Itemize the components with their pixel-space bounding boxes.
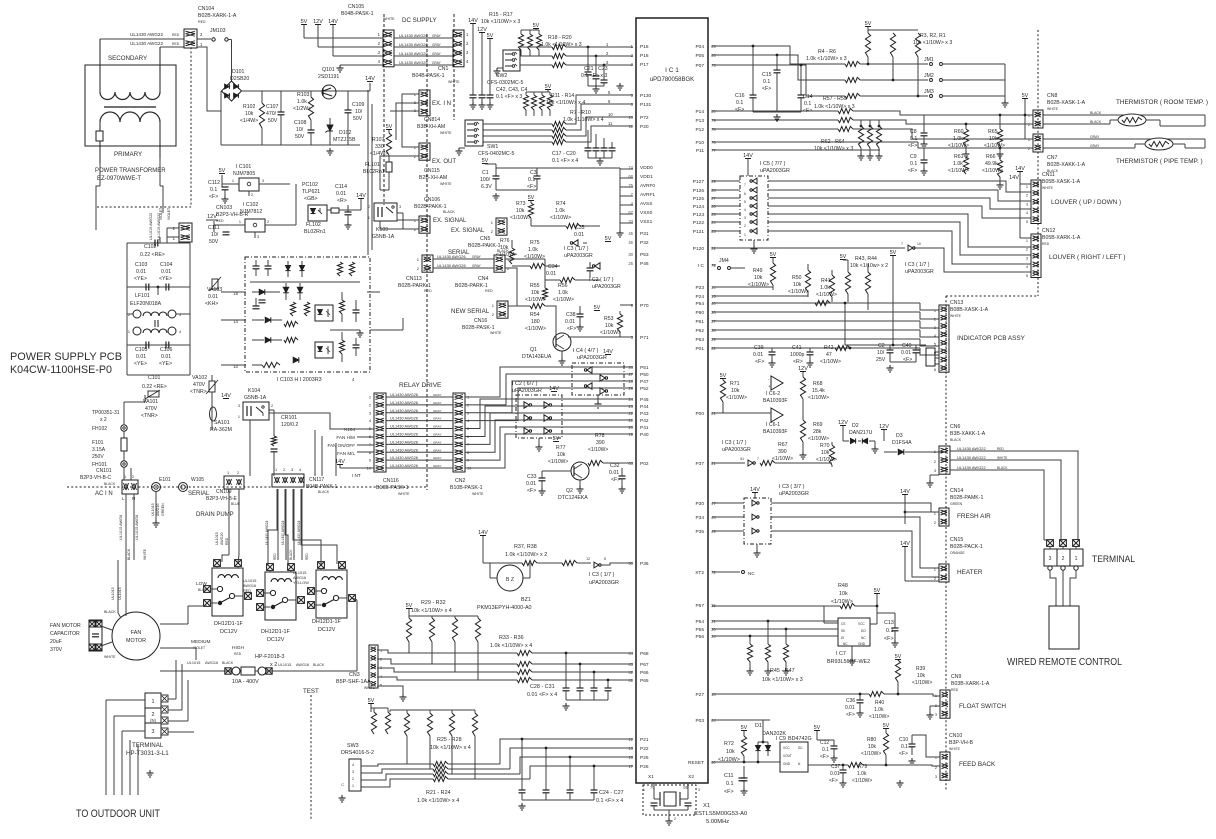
svg-text:RELAY DRIVE: RELAY DRIVE: [399, 382, 442, 389]
svg-text:<F>: <F>: [908, 168, 917, 174]
svg-text:250V: 250V: [92, 454, 104, 460]
svg-text:NJM7805: NJM7805: [233, 171, 255, 177]
svg-text:G5NB-1A: G5NB-1A: [372, 234, 395, 240]
svg-text:<1/10W>: <1/10W>: [861, 751, 881, 757]
svg-text:TEST: TEST: [303, 688, 319, 695]
svg-text:MEDIUM: MEDIUM: [191, 639, 210, 645]
svg-text:C103: C103: [135, 262, 148, 268]
svg-text:C15: C15: [762, 72, 772, 78]
svg-text:1: 1: [238, 415, 240, 419]
svg-text:FAN: FAN: [131, 630, 142, 636]
svg-text:C39: C39: [754, 345, 764, 351]
svg-text:3.15A: 3.15A: [92, 447, 106, 453]
svg-text:UL1015: UL1015: [215, 532, 219, 545]
svg-text:C38: C38: [566, 312, 576, 318]
svg-text:25V: 25V: [876, 357, 886, 363]
svg-text:DC12V: DC12V: [220, 629, 238, 635]
svg-text:DRS4016-5-2: DRS4016-5-2: [341, 750, 374, 756]
svg-text:4: 4: [299, 468, 301, 472]
svg-text:C37: C37: [831, 764, 840, 770]
svg-text:C12: C12: [820, 740, 829, 746]
svg-text:VA103: VA103: [207, 287, 222, 293]
svg-text:BLACK: BLACK: [222, 661, 234, 665]
svg-text:LOUVER ( RIGHT / LEFT ): LOUVER ( RIGHT / LEFT ): [1049, 254, 1125, 261]
svg-text:P121: P121: [693, 229, 705, 235]
svg-text:46: 46: [628, 240, 633, 245]
svg-text:<F>: <F>: [527, 184, 536, 190]
svg-text:P45: P45: [640, 397, 649, 403]
svg-text:1: 1: [232, 179, 234, 183]
svg-text:NC: NC: [861, 636, 866, 640]
svg-text:P05: P05: [695, 53, 704, 59]
svg-text:VA102: VA102: [192, 375, 207, 381]
svg-text:2: 2: [1028, 123, 1030, 127]
svg-text:0.1: 0.1: [901, 744, 908, 750]
svg-text:1: 1: [1028, 138, 1030, 142]
svg-text:<F>: <F>: [908, 143, 917, 149]
svg-text:3: 3: [238, 404, 240, 408]
svg-text:B Z: B Z: [506, 577, 514, 583]
svg-text:4: 4: [1026, 265, 1028, 269]
svg-text:1.0k: 1.0k: [528, 247, 538, 253]
svg-text:R4 - R6: R4 - R6: [818, 49, 836, 55]
svg-text:WHITE: WHITE: [104, 655, 116, 659]
svg-text:AWG20: AWG20: [220, 533, 224, 545]
svg-text:R70: R70: [820, 443, 830, 449]
svg-text:GREEN: GREEN: [950, 502, 963, 506]
svg-text:FRESH AIR: FRESH AIR: [957, 513, 991, 520]
svg-text:G5NB-1A: G5NB-1A: [244, 395, 267, 401]
svg-text:10k <1/10W> x 3: 10k <1/10W> x 3: [762, 677, 803, 683]
svg-text:GRAY: GRAY: [472, 255, 482, 259]
svg-text:GRAY: GRAY: [433, 393, 442, 397]
svg-text:BLACK: BLACK: [997, 466, 1008, 470]
svg-text:VSS0: VSS0: [640, 210, 653, 216]
svg-text:SW3: SW3: [347, 743, 359, 749]
svg-text:2: 2: [267, 220, 269, 224]
svg-text:0.1 <F> x 3: 0.1 <F> x 3: [496, 94, 522, 100]
svg-text:CN4: CN4: [478, 276, 488, 282]
svg-text:2: 2: [1026, 194, 1028, 198]
svg-text:BLACK: BLACK: [318, 490, 330, 494]
svg-text:10k: 10k: [557, 452, 566, 458]
svg-text:C3: C3: [530, 170, 537, 176]
svg-text:0.1: 0.1: [910, 136, 917, 142]
svg-text:P01: P01: [695, 346, 704, 352]
svg-text:B05B-XARK-1-A: B05B-XARK-1-A: [1042, 235, 1081, 241]
svg-text:GRAY: GRAY: [432, 52, 442, 56]
svg-text:BLACK: BLACK: [1090, 120, 1102, 124]
svg-text:120/0.2: 120/0.2: [281, 422, 298, 428]
svg-text:R3, R2, R1: R3, R2, R1: [920, 33, 946, 39]
svg-text:P00: P00: [695, 411, 704, 417]
svg-text:BA10393F: BA10393F: [763, 398, 788, 404]
svg-text:DC12V: DC12V: [267, 637, 285, 643]
svg-text:R29 - R32: R29 - R32: [421, 600, 446, 606]
svg-text:I C3 ( 1/7 ): I C3 ( 1/7 ): [905, 262, 930, 268]
svg-text:<F>: <F>: [820, 754, 829, 760]
svg-text:<KH>: <KH>: [205, 301, 218, 307]
svg-text:WHITE: WHITE: [440, 131, 452, 135]
svg-text:P25: P25: [640, 755, 649, 761]
svg-text:C9: C9: [910, 154, 917, 160]
svg-text:1.0k <1/10W> x 4: 1.0k <1/10W> x 4: [417, 798, 459, 804]
svg-text:B02B-PACK-1: B02B-PACK-1: [950, 544, 983, 550]
svg-text:FH102: FH102: [92, 426, 107, 432]
svg-text:0.01: 0.01: [830, 771, 840, 777]
svg-text:49.9k: 49.9k: [985, 161, 998, 167]
svg-text:C32: C32: [610, 463, 620, 469]
svg-text:<1/10W>: <1/10W>: [548, 459, 568, 465]
svg-text:2: 2: [934, 521, 936, 525]
svg-text:47: 47: [826, 352, 832, 358]
svg-text:0.01: 0.01: [336, 191, 346, 197]
svg-text:3: 3: [352, 770, 354, 774]
svg-text:NJM7812: NJM7812: [240, 209, 262, 215]
svg-text:<YE>: <YE>: [159, 361, 172, 367]
svg-text:UL1015 AWG8: UL1015 AWG8: [119, 515, 123, 540]
svg-text:GRAY: GRAY: [433, 417, 442, 421]
svg-text:AC I N: AC I N: [95, 491, 113, 497]
svg-text:I C103 H I 2003R3: I C103 H I 2003R3: [277, 377, 322, 383]
svg-text:R103: R103: [297, 92, 310, 98]
svg-text:P17: P17: [640, 62, 649, 68]
svg-text:50V: 50V: [268, 118, 278, 124]
svg-text:EX. I N: EX. I N: [432, 101, 451, 107]
svg-text:WHITE: WHITE: [398, 492, 410, 496]
svg-text:10k: 10k: [500, 245, 509, 251]
svg-text:UL1430 AWG26: UL1430 AWG26: [390, 455, 418, 460]
svg-text:5: 5: [934, 343, 936, 347]
svg-text:EZ-0970WWE-T: EZ-0970WWE-T: [97, 176, 141, 182]
svg-text:CN6: CN6: [950, 424, 960, 430]
svg-text:R37, R38: R37, R38: [514, 544, 537, 550]
svg-text:R15 - R17: R15 - R17: [489, 12, 513, 18]
svg-text:10k <1/10w> x 2: 10k <1/10w> x 2: [850, 263, 888, 269]
svg-text:UL1015: UL1015: [111, 587, 115, 600]
svg-text:SECONDARY: SECONDARY: [108, 55, 147, 62]
svg-text:UL1430 AWG26: UL1430 AWG26: [390, 431, 418, 436]
svg-text:THERMISTOR ( PIPE TEMP. ): THERMISTOR ( PIPE TEMP. ): [1116, 158, 1203, 165]
svg-text:UL1015 AWG8: UL1015 AWG8: [135, 515, 139, 540]
svg-text:P37: P37: [695, 461, 704, 467]
svg-text:I C3 ( 1/7 ): I C3 ( 1/7 ): [589, 572, 615, 578]
svg-text:R21 - R24: R21 - R24: [426, 790, 451, 796]
svg-text:10k <1/10W> x 3: 10k <1/10W> x 3: [481, 19, 520, 25]
svg-text:P07: P07: [695, 63, 704, 69]
svg-text:GRAY: GRAY: [432, 43, 442, 47]
svg-text:P64: P64: [695, 301, 704, 307]
svg-text:GND: GND: [858, 642, 866, 646]
svg-text:DC12V: DC12V: [318, 627, 336, 633]
svg-text:2SD1191: 2SD1191: [318, 74, 339, 80]
svg-text:AWG16: AWG16: [296, 663, 309, 667]
svg-text:GRAY: GRAY: [433, 440, 442, 444]
svg-text:3: 3: [369, 410, 371, 415]
svg-text:470/: 470/: [266, 111, 277, 117]
svg-text:R102: R102: [243, 104, 256, 110]
svg-text:1: 1: [1028, 114, 1030, 118]
svg-text:POWER SUPPLY PCB: POWER SUPPLY PCB: [10, 351, 122, 363]
svg-text:D101: D101: [232, 69, 245, 75]
svg-text:P122: P122: [693, 220, 705, 226]
svg-text:JM103: JM103: [210, 28, 226, 34]
svg-text:UL1015: UL1015: [293, 571, 306, 575]
svg-text:C24 - C27: C24 - C27: [599, 790, 624, 796]
svg-text:B10B-PASK-1: B10B-PASK-1: [376, 485, 409, 491]
svg-text:R18 - R20: R18 - R20: [548, 35, 572, 41]
svg-text:10k: 10k: [245, 111, 254, 117]
svg-text:<1/10W>: <1/10W>: [588, 447, 608, 453]
svg-text:C101: C101: [148, 375, 161, 381]
svg-text:10k <1/10W> x 4: 10k <1/10W> x 4: [546, 100, 585, 106]
svg-text:CN116: CN116: [383, 478, 399, 484]
svg-text:<1/10W>: <1/10W>: [831, 599, 853, 605]
svg-text:CN3: CN3: [349, 672, 360, 678]
svg-text:P04: P04: [695, 44, 704, 50]
svg-text:C8: C8: [910, 129, 917, 135]
svg-text:GRAY: GRAY: [433, 464, 442, 468]
svg-text:C35: C35: [575, 225, 585, 231]
svg-text:R65: R65: [988, 129, 998, 135]
svg-text:RED: RED: [172, 42, 180, 46]
svg-text:B02B-PARK-1: B02B-PARK-1: [455, 283, 488, 289]
svg-text:3: 3: [257, 235, 259, 239]
svg-text:I C101: I C101: [236, 164, 251, 170]
svg-text:1000p: 1000p: [790, 352, 805, 358]
svg-text:4: 4: [744, 208, 746, 212]
svg-text:TP00351-31: TP00351-31: [92, 410, 120, 416]
svg-text:P54: P54: [695, 619, 704, 625]
svg-text:WHITE: WHITE: [383, 17, 395, 21]
svg-text:3: 3: [152, 729, 155, 735]
svg-text:B02B-XAKK-1-A: B02B-XAKK-1-A: [1047, 162, 1086, 168]
svg-text:CN113: CN113: [406, 276, 422, 282]
svg-text:2: 2: [674, 817, 676, 821]
svg-text:0.1: 0.1: [726, 781, 734, 787]
svg-text:<1/10W>: <1/10W>: [600, 330, 621, 336]
svg-text:RED: RED: [485, 289, 493, 293]
svg-text:C11: C11: [724, 773, 734, 779]
svg-text:<YE>: <YE>: [134, 276, 147, 282]
svg-text:<1/10W>: <1/10W>: [772, 456, 793, 462]
svg-text:P02: P02: [640, 461, 649, 467]
svg-text:5.00MHz: 5.00MHz: [706, 819, 729, 825]
svg-text:P65: P65: [640, 678, 649, 684]
svg-text:R11 - R14: R11 - R14: [551, 93, 574, 99]
svg-text:X1: X1: [703, 803, 710, 809]
svg-text:0.01: 0.01: [208, 294, 218, 300]
svg-text:UL1015: UL1015: [243, 579, 256, 583]
svg-text:RED: RED: [234, 652, 242, 656]
svg-text:BL02Rn1: BL02Rn1: [304, 229, 326, 235]
svg-text:AWG16: AWG16: [293, 576, 306, 580]
svg-text:B2B-XH-AM: B2B-XH-AM: [419, 175, 447, 181]
svg-text:BLACK: BLACK: [289, 549, 293, 560]
svg-text:AVRF0: AVRF0: [640, 183, 655, 189]
svg-text:UL1015 AWG22: UL1015 AWG22: [149, 213, 153, 240]
svg-text:FL102: FL102: [306, 222, 321, 228]
svg-text:HP-T3031-3-L1: HP-T3031-3-L1: [126, 750, 169, 757]
svg-text:JM2: JM2: [924, 73, 934, 79]
svg-text:100/: 100/: [480, 177, 491, 183]
svg-text:0.22 <RE>: 0.22 <RE>: [140, 252, 165, 258]
svg-text:CN2: CN2: [455, 478, 465, 484]
svg-text:1: 1: [643, 788, 645, 792]
svg-text:<R>: <R>: [793, 359, 803, 365]
svg-text:UL1430 AWG24: UL1430 AWG24: [297, 521, 301, 545]
svg-text:1: 1: [934, 568, 936, 572]
svg-text:P124: P124: [693, 204, 705, 210]
svg-text:<YE>: <YE>: [159, 276, 172, 282]
svg-text:P32: P32: [640, 240, 649, 246]
svg-text:1: 1: [934, 512, 936, 516]
svg-text:<1/10W>: <1/10W>: [510, 215, 531, 221]
svg-text:P22: P22: [640, 746, 649, 752]
svg-text:1.0k: 1.0k: [555, 208, 565, 214]
svg-text:BR93L56RF-WE2: BR93L56RF-WE2: [827, 659, 870, 665]
svg-text:4: 4: [1026, 211, 1028, 215]
svg-text:P50: P50: [640, 372, 649, 378]
svg-text:51: 51: [740, 457, 744, 461]
svg-text:CN13: CN13: [950, 300, 963, 306]
svg-text:P130: P130: [640, 93, 652, 99]
svg-text:3: 3: [934, 326, 936, 330]
svg-text:EX. SIGNAL: EX. SIGNAL: [433, 218, 467, 224]
svg-text:<1/10W>: <1/10W>: [820, 359, 841, 365]
svg-text:UL1430 AWG26: UL1430 AWG26: [390, 400, 418, 405]
svg-text:R75: R75: [530, 240, 540, 246]
svg-text:BA10393F: BA10393F: [763, 429, 788, 435]
svg-text:1.0k: 1.0k: [857, 771, 867, 777]
svg-text:WHITE: WHITE: [472, 492, 484, 496]
svg-text:50V: 50V: [353, 116, 363, 122]
svg-text:UL1430 AWG26: UL1430 AWG26: [399, 60, 429, 65]
svg-text:10k: 10k: [989, 136, 998, 142]
svg-text:10k <1/10W> x 4: 10k <1/10W> x 4: [411, 608, 452, 614]
svg-text:DH12D1-1F: DH12D1-1F: [214, 621, 243, 627]
svg-text:Q101: Q101: [322, 67, 335, 73]
svg-text:1: 1: [1075, 556, 1078, 562]
svg-text:3: 3: [262, 179, 264, 183]
svg-text:P14: P14: [695, 109, 704, 115]
svg-text:R48: R48: [838, 583, 848, 589]
svg-text:WHITE: WHITE: [950, 314, 962, 318]
svg-text:JM3: JM3: [924, 89, 934, 95]
svg-text:FAN M/L: FAN M/L: [337, 451, 355, 456]
svg-text:3: 3: [934, 469, 936, 473]
svg-text:12V: 12V: [207, 214, 217, 220]
svg-text:1: 1: [1026, 239, 1028, 243]
svg-text:BLACK: BLACK: [1090, 111, 1102, 115]
svg-text:WIRED REMOTE CONTROL: WIRED REMOTE CONTROL: [1007, 657, 1122, 668]
svg-text:<F>: <F>: [735, 107, 744, 113]
svg-text:P63: P63: [695, 337, 704, 343]
svg-text:AVRF1: AVRF1: [640, 192, 655, 198]
svg-text:UL1015 AWG22: UL1015 AWG22: [157, 213, 161, 240]
svg-text:TO OUTDOOR UNIT: TO OUTDOOR UNIT: [76, 808, 160, 820]
svg-text:0.01 <F> x 4: 0.01 <F> x 4: [527, 692, 557, 698]
svg-text:WHITE: WHITE: [490, 331, 502, 335]
svg-text:P71: P71: [640, 335, 649, 341]
svg-text:UL1430 AWG22: UL1430 AWG22: [130, 41, 163, 46]
svg-text:0.01: 0.01: [901, 350, 911, 356]
svg-text:8: 8: [934, 368, 936, 372]
svg-text:P52: P52: [640, 386, 649, 392]
svg-text:EX. SIGNAL: EX. SIGNAL: [451, 228, 485, 234]
svg-text:470V: 470V: [145, 406, 158, 412]
svg-text:P67: P67: [640, 662, 649, 668]
svg-text:B05B-XASK-1-A: B05B-XASK-1-A: [1042, 179, 1081, 185]
svg-text:DH12D1-1F: DH12D1-1F: [261, 629, 290, 635]
svg-text:<F>: <F>: [567, 326, 576, 332]
svg-text:UL1015: UL1015: [151, 503, 155, 516]
svg-text:WHITE: WHITE: [949, 747, 961, 751]
svg-text:P13: P13: [695, 118, 704, 124]
svg-text:UL1430 AWG26: UL1430 AWG26: [399, 51, 429, 56]
svg-text:P21: P21: [640, 737, 649, 743]
svg-text:WHITE: WHITE: [997, 456, 1007, 460]
svg-text:B04B-PASK-1: B04B-PASK-1: [412, 73, 445, 79]
svg-text:I C6-1: I C6-1: [766, 422, 780, 428]
svg-text:<YE>: <YE>: [134, 361, 147, 367]
svg-text:1.0k: 1.0k: [558, 290, 568, 296]
svg-text:P125: P125: [693, 196, 705, 202]
svg-text:UL1430 AWG26: UL1430 AWG26: [390, 416, 418, 421]
svg-text:3: 3: [935, 713, 937, 717]
svg-text:UL1430 AWG26: UL1430 AWG26: [437, 263, 467, 268]
svg-text:SW2: SW2: [496, 73, 507, 79]
svg-text:<F>: <F>: [762, 86, 771, 92]
svg-text:2: 2: [283, 468, 285, 472]
svg-text:K109: K109: [376, 227, 388, 233]
svg-text:P16: P16: [640, 53, 649, 59]
svg-text:AVSS: AVSS: [640, 201, 652, 207]
svg-text:PC102: PC102: [302, 182, 318, 188]
svg-text:RED: RED: [305, 553, 309, 560]
svg-text:<1/10W>: <1/10W>: [808, 436, 829, 442]
svg-text:UL1015: UL1015: [118, 587, 122, 600]
svg-text:+: +: [768, 384, 771, 389]
svg-text:10/: 10/: [877, 350, 885, 356]
svg-text:JM1: JM1: [924, 57, 934, 63]
svg-text:10k: 10k: [754, 275, 763, 281]
svg-text:I C: I C: [698, 263, 705, 269]
svg-text:C41: C41: [792, 345, 802, 351]
svg-text:390: 390: [596, 440, 605, 446]
svg-text:BL02Rn1: BL02Rn1: [363, 169, 385, 175]
svg-text:R67: R67: [778, 442, 788, 448]
svg-text:0.1 <F> x 4: 0.1 <F> x 4: [596, 798, 623, 804]
svg-text:B10B-PASK-1: B10B-PASK-1: [450, 485, 483, 491]
svg-text:0.01: 0.01: [526, 481, 536, 487]
svg-text:CN11: CN11: [1042, 172, 1055, 178]
svg-text:P57: P57: [695, 603, 704, 609]
svg-text:CN117: CN117: [309, 477, 324, 483]
svg-text:CN16: CN16: [474, 318, 487, 324]
svg-text:0.22 <RE>: 0.22 <RE>: [142, 384, 167, 390]
svg-text:P131: P131: [640, 102, 652, 108]
svg-text:DTC124EKA: DTC124EKA: [558, 495, 588, 501]
svg-text:P40: P40: [640, 432, 649, 438]
svg-text:CN1: CN1: [438, 66, 448, 72]
svg-text:UL1430 AWG24: UL1430 AWG24: [281, 521, 285, 545]
svg-text:B3B-XAKK-1-A: B3B-XAKK-1-A: [950, 431, 986, 437]
svg-text:R7 - R10: R7 - R10: [570, 110, 591, 116]
svg-text:RED: RED: [997, 447, 1004, 451]
svg-text:3: 3: [698, 788, 700, 792]
svg-text:15.4k: 15.4k: [812, 388, 825, 394]
